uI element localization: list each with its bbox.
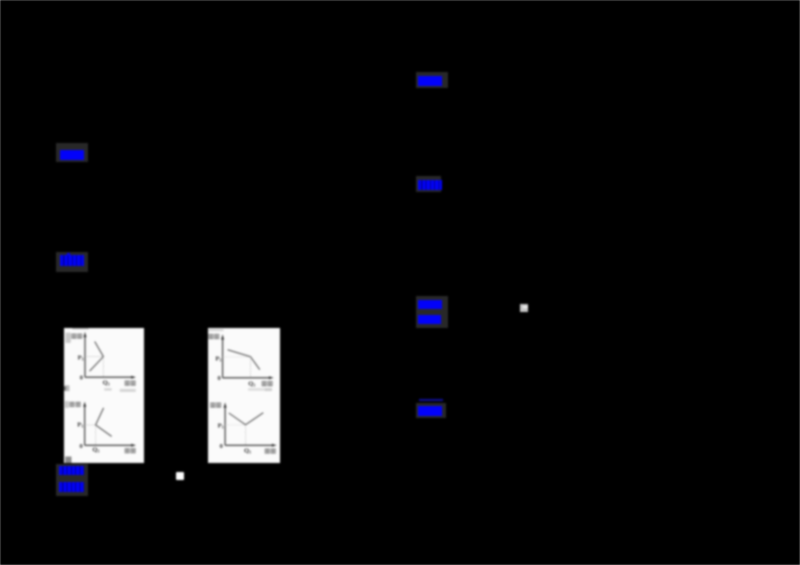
- chart C: axis label 价格: [70, 402, 74, 407]
- chart B: y axis: [221, 338, 223, 378]
- gray icon near highlight C: [520, 304, 528, 312]
- chart B: dashed guides: [222, 356, 250, 358]
- chart B: axis label 数量: [262, 381, 266, 386]
- halo around highlight 2: [56, 252, 88, 272]
- chart C: kinked curve: [95, 408, 111, 436]
- chart D: x axis: [225, 444, 272, 446]
- halo around highlight 1: [56, 143, 88, 162]
- blue underline above highlight E: [419, 399, 443, 401]
- chart A: top edge gray strip: [72, 328, 88, 329]
- halo around highlights C and D: [416, 296, 448, 328]
- blue highlight 1 (left column): [60, 150, 84, 161]
- chart D: axis label 数量: [265, 449, 269, 454]
- chart B: x axis: [222, 377, 269, 379]
- chart D: dashed guides: [225, 424, 245, 426]
- chart C: y axis: [84, 405, 86, 445]
- svg-text:0: 0: [79, 443, 82, 450]
- chart A: axis label 数量: [125, 381, 129, 386]
- halo around highlight A: [416, 72, 448, 88]
- chart B: light watermark strip: [248, 388, 264, 391]
- chart A: dashed guides to P1 Q1: [85, 356, 103, 377]
- chart C: bottom-left gray block: [65, 456, 71, 463]
- svg-text:P1: P1: [215, 355, 221, 362]
- blue highlight F2 (bottom left): [59, 482, 84, 492]
- chart A: light watermark strips: [104, 388, 111, 390]
- chart C: gray square before label: [65, 401, 69, 408]
- white streak inside gray icon: [523, 306, 528, 309]
- blue highlight B (right column): [418, 180, 443, 190]
- blue highlight D: [418, 315, 441, 324]
- chart D: axis label 价格: [210, 403, 214, 408]
- chart A: bottom-left small gray marks: [65, 385, 69, 391]
- blue highlight C: [418, 300, 442, 309]
- chart C: x axis: [85, 444, 132, 446]
- blue highlight A (right column top): [418, 76, 442, 86]
- chart A: y axis: [84, 335, 86, 377]
- chart D: y axis: [224, 406, 226, 445]
- chart A: gray smudge at left edge: [65, 333, 70, 343]
- small white square marker: [176, 472, 184, 480]
- chart A: x axis: [85, 376, 131, 378]
- svg-text:Q1: Q1: [92, 446, 99, 453]
- halo around highlight E: [416, 403, 446, 418]
- svg-text:Q1: Q1: [244, 447, 251, 454]
- svg-text:P1: P1: [77, 354, 83, 361]
- white panel 1 with charts A and C: [64, 328, 144, 464]
- svg-text:0: 0: [217, 375, 220, 382]
- blue speck above highlight 2: [67, 253, 70, 255]
- svg-text:Q1: Q1: [102, 379, 109, 386]
- halo around highlight B: [416, 176, 441, 192]
- svg-text:Q1: Q1: [248, 380, 255, 387]
- chart B: top edge gray strip: [208, 329, 223, 331]
- svg-text:P1: P1: [77, 421, 83, 428]
- blue highlight F1 (bottom left): [59, 466, 84, 476]
- chart B: axis label 价格 (clipped): [208, 334, 212, 339]
- chart C: dashed guides: [85, 425, 96, 445]
- blue highlight 2 (left column): [60, 255, 84, 266]
- blue highlight E (right column bottom): [418, 406, 442, 417]
- chart B: kinked demand curve: [227, 350, 259, 370]
- chart A: axis label 价格: [72, 334, 76, 339]
- chart D: V shaped curve: [228, 413, 262, 425]
- halo around bottom-left highlights: [56, 464, 88, 496]
- svg-text:0: 0: [219, 443, 222, 450]
- white panel 2 with charts B and D: [208, 328, 281, 464]
- chart C: axis label 数量: [125, 448, 129, 453]
- chart A: supply/demand kinked curve: [89, 341, 103, 371]
- svg-text:0: 0: [80, 374, 83, 381]
- svg-text:P1: P1: [217, 422, 223, 429]
